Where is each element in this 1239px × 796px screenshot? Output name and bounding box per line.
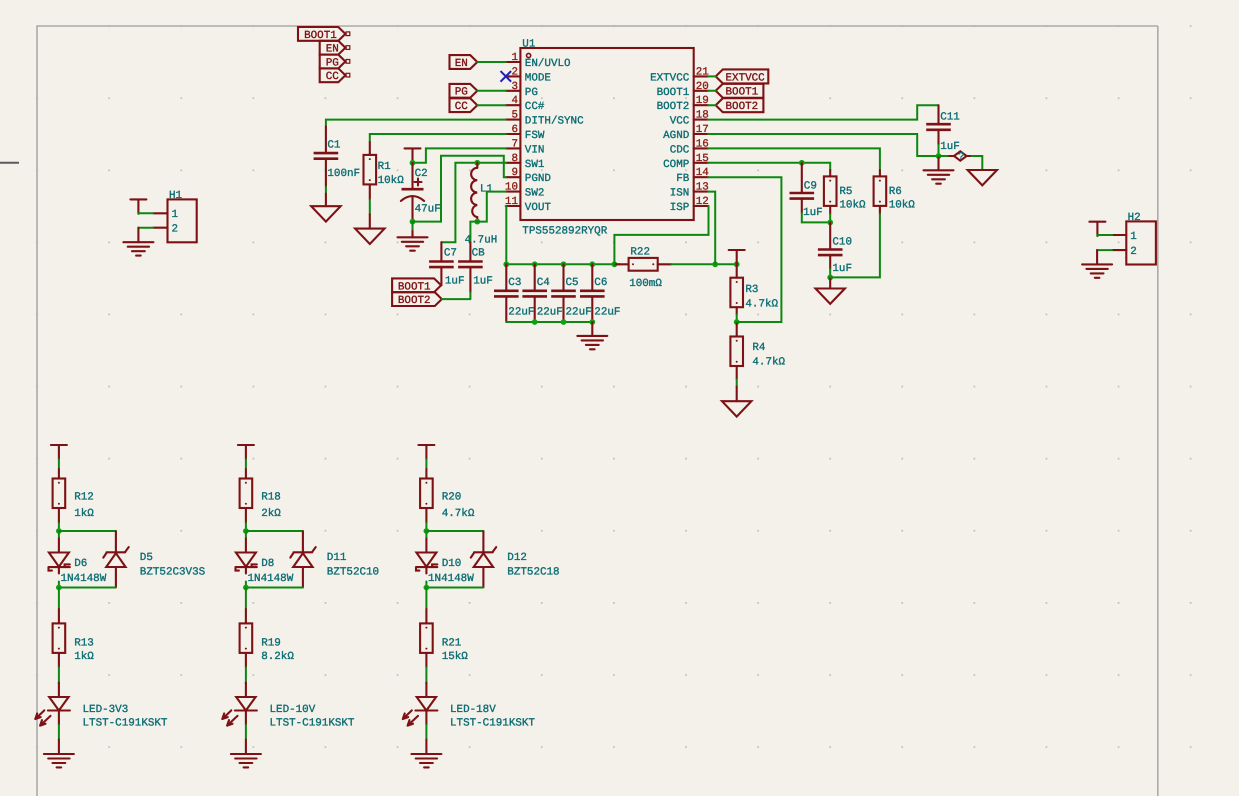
hierarchical label EXTVCC at pin 21	[716, 69, 769, 84]
svg-text:BOOT1: BOOT1	[726, 87, 759, 99]
wire L1 bottom to CB	[470, 222, 477, 243]
svg-text:CC#: CC#	[525, 101, 545, 113]
wire pin7 VIN to C2 node	[413, 148, 506, 162]
svg-text:FSW: FSW	[525, 130, 545, 142]
wire LED to ground	[245, 711, 247, 725]
svg-text:SW1: SW1	[525, 159, 545, 171]
svg-text:4.7kΩ: 4.7kΩ	[442, 508, 475, 520]
wire junction to ground	[937, 156, 939, 170]
wire C10 junction to ground	[829, 277, 831, 288]
svg-text:FB: FB	[676, 173, 690, 185]
wire CB to BOOT2	[442, 293, 471, 300]
net-tie NT1	[949, 151, 971, 163]
node rail at C5	[561, 261, 567, 267]
node ISN drop	[712, 261, 718, 267]
svg-text:CDC: CDC	[670, 144, 690, 156]
svg-text:15: 15	[696, 153, 709, 165]
svg-text:MODE: MODE	[525, 72, 551, 84]
wire pin17 AGND to junction	[708, 134, 938, 156]
svg-text:1uF: 1uF	[445, 276, 465, 288]
power bar above C2	[405, 148, 421, 162]
svg-text:6: 6	[511, 124, 518, 136]
svg-text:ISN: ISN	[670, 188, 690, 200]
svg-text:CB: CB	[472, 248, 486, 260]
svg-text:1N4148W: 1N4148W	[248, 573, 294, 585]
svg-text:2: 2	[1130, 246, 1137, 258]
svg-text:2: 2	[172, 224, 179, 236]
wire C11 bottom to junction	[938, 145, 940, 156]
wire L1 bottom to SW2 pin10	[477, 192, 506, 222]
wire pin5 DITH/SYNC to C1	[326, 120, 506, 127]
capacitor C5 22uF	[551, 264, 591, 322]
ground below R1	[355, 229, 384, 244]
svg-text:1kΩ: 1kΩ	[74, 508, 94, 520]
svg-text:R3: R3	[745, 284, 758, 296]
svg-text:R6: R6	[889, 186, 902, 198]
node gnd rail at C4	[532, 319, 538, 325]
hierarchical label BOOT1 (top left stack)	[298, 27, 350, 42]
node rail at C3	[503, 261, 509, 267]
power bar leg3	[418, 445, 434, 459]
resistor R18 2kOhm	[240, 479, 282, 524]
diode D8 1N4148W	[236, 539, 294, 585]
wire output rail	[506, 263, 620, 265]
svg-text:10: 10	[505, 182, 518, 194]
svg-text:DITH/SYNC: DITH/SYNC	[525, 116, 584, 128]
ground leg3	[411, 754, 441, 767]
U1 right pin names	[650, 72, 690, 214]
svg-text:SW2: SW2	[525, 188, 545, 200]
svg-text:C3: C3	[508, 277, 521, 289]
wire pin21 to EXTVCC	[708, 75, 716, 77]
svg-text:R1: R1	[378, 161, 392, 173]
svg-text:1: 1	[1130, 231, 1137, 243]
svg-text:8.2kΩ: 8.2kΩ	[261, 651, 294, 663]
svg-text:2kΩ: 2kΩ	[261, 508, 281, 520]
svg-text:1uF: 1uF	[473, 276, 493, 288]
svg-text:VIN: VIN	[525, 144, 545, 156]
capacitor C1 100nF	[314, 127, 360, 187]
wire pin12 ISP down and left to rail	[614, 206, 708, 264]
node leg1 lower junction	[56, 585, 62, 591]
wire pin16 CDC to R6	[708, 148, 880, 170]
svg-text:10kΩ: 10kΩ	[839, 200, 866, 212]
svg-text:R21: R21	[442, 638, 462, 650]
capacitor C4 22uF	[522, 264, 562, 322]
svg-text:R19: R19	[261, 638, 281, 650]
svg-text:22uF: 22uF	[594, 307, 620, 319]
svg-text:U1: U1	[522, 38, 536, 50]
diode D10 1N4148W	[416, 539, 474, 585]
svg-text:CC: CC	[326, 71, 340, 83]
resistor R19 8.2kOhm	[240, 623, 295, 667]
svg-text:4.7kΩ: 4.7kΩ	[752, 357, 785, 369]
svg-text:20: 20	[696, 81, 709, 93]
node COMP at C9	[799, 160, 805, 166]
wire LED to ground	[425, 711, 427, 725]
hierarchical label BOOT2 at pin 19	[716, 98, 764, 113]
power bar leg2	[238, 445, 254, 459]
svg-text:4.7kΩ: 4.7kΩ	[745, 298, 778, 310]
wire pin8 SW1 to L1 and C7	[441, 163, 505, 242]
power bar at H1 pin1	[130, 199, 146, 213]
zener diode D11 BZT52C10	[290, 531, 379, 587]
hierarchical label BOOT1 at pin 20	[716, 84, 764, 99]
ground below C1	[311, 206, 340, 221]
wire junction to D10	[425, 531, 427, 539]
LED LED-3V3 LTST-C191KSKT	[35, 683, 168, 730]
ground below C2	[398, 237, 428, 250]
svg-text:BZT52C10: BZT52C10	[327, 567, 379, 579]
U1 left pin names	[525, 58, 584, 214]
wire leg1 power to R12	[58, 459, 60, 469]
svg-text:10kΩ: 10kΩ	[889, 200, 916, 212]
ground below H2	[1082, 264, 1112, 277]
node gnd rail at C5	[561, 319, 567, 325]
capacitor C6 22uF	[580, 264, 620, 322]
U1 right pin stubs 21-12	[694, 76, 709, 206]
resistor R4 4.7kOhm	[730, 322, 785, 380]
node leg3 lower junction	[424, 585, 430, 591]
svg-text:PGND: PGND	[525, 173, 551, 185]
wire C6 node to ground	[591, 322, 593, 336]
svg-text:12: 12	[696, 196, 709, 208]
svg-text:H2: H2	[1128, 212, 1141, 224]
svg-text:1uF: 1uF	[940, 141, 960, 153]
svg-text:C4: C4	[537, 277, 550, 289]
svg-text:1N4148W: 1N4148W	[428, 573, 474, 585]
svg-text:COMP: COMP	[663, 159, 689, 171]
svg-text:BZT52C3V3S: BZT52C3V3S	[140, 567, 205, 579]
svg-text:7: 7	[511, 138, 518, 150]
wire leg3 power to R20	[425, 459, 427, 469]
wire R13 to LED	[58, 667, 60, 682]
wire net-tie to right ground	[971, 156, 982, 170]
svg-text:ISP: ISP	[670, 202, 690, 214]
svg-text:H1: H1	[169, 190, 183, 202]
wire junction to R19	[245, 588, 247, 610]
svg-text:D11: D11	[327, 552, 347, 564]
svg-text:1kΩ: 1kΩ	[74, 651, 94, 663]
wire junction to D8	[245, 531, 247, 539]
ground leg1	[44, 754, 74, 767]
svg-text:9: 9	[511, 167, 518, 179]
wire LED to ground	[58, 711, 60, 725]
svg-text:22uF: 22uF	[508, 307, 534, 319]
svg-text:100nF: 100nF	[327, 168, 360, 180]
svg-text:BOOT2: BOOT2	[398, 295, 431, 307]
svg-text:?: ?	[958, 152, 965, 164]
wire H2 pin1 to power	[1097, 235, 1112, 236]
resistor R1 10kOhm	[364, 142, 405, 200]
node leg2 upper junction	[243, 528, 249, 534]
wire CC to pin4	[477, 104, 506, 106]
wire pin11 VOUT down to output rail	[505, 206, 508, 264]
wire D10 to lower junction	[425, 582, 427, 588]
svg-text:PG: PG	[525, 87, 538, 99]
node C10 bottom junction	[827, 275, 833, 281]
svg-text:2: 2	[511, 66, 518, 78]
wire leg2 to zener D11	[246, 530, 303, 532]
svg-text:R5: R5	[839, 186, 852, 198]
svg-text:D6: D6	[74, 558, 87, 570]
svg-text:EN: EN	[455, 58, 468, 70]
wire pin15 COMP to C9/R5	[708, 163, 830, 170]
svg-text:C9: C9	[804, 180, 817, 192]
capacitor C2 47uF polarized	[401, 163, 441, 222]
wire C1 to ground	[325, 187, 327, 194]
resistor R20 4.7kOhm	[420, 479, 475, 524]
svg-text:47uF: 47uF	[415, 204, 441, 216]
wire R6 bottom to C10 junction	[830, 214, 880, 277]
svg-text:19: 19	[696, 95, 709, 107]
svg-text:R22: R22	[630, 247, 650, 259]
resistor R5 10kOhm	[824, 170, 866, 214]
wire D6 to lower junction	[58, 582, 60, 588]
capacitor C11 1uF	[926, 105, 960, 153]
svg-text:1uF: 1uF	[803, 207, 823, 219]
wire leg2 power to R18	[245, 459, 247, 469]
svg-text:VCC: VCC	[670, 116, 690, 128]
svg-text:C11: C11	[940, 112, 960, 124]
svg-text:17: 17	[696, 124, 709, 136]
no-connect X on pin 2 MODE	[501, 71, 512, 82]
svg-text:C6: C6	[594, 277, 607, 289]
svg-text:C5: C5	[566, 277, 579, 289]
wire R18 to junction	[245, 523, 247, 531]
wire C2 to ground	[412, 222, 414, 231]
svg-text:22uF: 22uF	[566, 307, 592, 319]
power bar at H2 pin1	[1089, 222, 1105, 236]
left edge tick mark	[0, 162, 19, 164]
svg-text:R4: R4	[752, 342, 765, 354]
diode D6 1N4148W	[49, 539, 107, 585]
connector H2	[1112, 212, 1156, 265]
hierarchical label EN at pin 1	[450, 55, 478, 70]
node leg3 upper junction	[424, 528, 430, 534]
resistor R3 4.7kOhm	[730, 264, 778, 314]
node R3 top	[734, 261, 740, 267]
svg-text:PG: PG	[455, 87, 468, 99]
svg-text:1: 1	[511, 52, 518, 64]
wire leg3 to zener D12	[426, 530, 483, 532]
svg-text:BZT52C18: BZT52C18	[507, 567, 559, 579]
inductor L1 4.7uH	[465, 163, 498, 247]
connector H1	[153, 190, 197, 242]
node C2 bottom junction	[410, 219, 416, 225]
svg-text:D10: D10	[442, 558, 462, 570]
wire R22 right to R3 top	[671, 263, 736, 265]
wire R4 bottom to ground	[736, 380, 738, 387]
svg-text:D8: D8	[261, 558, 274, 570]
wire junction to D6	[58, 531, 60, 539]
wire junction to net-tie	[939, 155, 955, 157]
wire pin18 VCC to C11	[708, 105, 938, 119]
ground below C6	[577, 336, 607, 349]
svg-text:BOOT1: BOOT1	[657, 87, 690, 99]
wire pin19 to BOOT2	[708, 104, 716, 106]
zener diode D5 BZT52C3V3S	[103, 531, 205, 587]
svg-text:13: 13	[696, 182, 709, 194]
capacitor C3 22uF	[494, 264, 534, 322]
wire pin9 PGND to C2 bottom	[413, 156, 506, 222]
resistor R13 1kOhm	[53, 623, 95, 667]
node rail at C4	[532, 261, 538, 267]
svg-text:4: 4	[511, 95, 518, 107]
hierarchical label CC at pin 4	[450, 98, 478, 113]
svg-text:C1: C1	[327, 140, 341, 152]
wire pin13 ISN down to rail	[708, 192, 715, 265]
wire R19 to LED	[245, 667, 247, 682]
zener diode D12 BZT52C18	[471, 531, 560, 587]
power bar leg1	[51, 445, 67, 459]
svg-text:D12: D12	[507, 552, 527, 564]
wire R3 bottom to junction	[736, 315, 738, 323]
node rail ISP drop	[612, 261, 618, 267]
svg-text:5: 5	[511, 110, 518, 122]
U1 left pin numbers	[505, 52, 519, 208]
capacitor C10 1uF	[818, 222, 852, 275]
svg-text:LED-18V: LED-18V	[450, 704, 496, 716]
wire pin20 to BOOT1	[708, 90, 716, 92]
wire leg1 to zener D5	[59, 530, 116, 532]
svg-text:R12: R12	[74, 491, 94, 503]
ground below C10	[816, 289, 845, 304]
svg-text:21: 21	[696, 66, 710, 78]
svg-text:EN/UVLO: EN/UVLO	[525, 58, 571, 70]
node leg2 lower junction	[243, 585, 249, 591]
svg-text:LTST-C191KSKT: LTST-C191KSKT	[270, 718, 355, 730]
node FB divider junction	[734, 319, 740, 325]
svg-text:R13: R13	[74, 638, 94, 650]
svg-text:CC: CC	[455, 101, 469, 113]
svg-text:1uF: 1uF	[832, 263, 852, 275]
ground below H1	[123, 242, 153, 255]
LED LED-10V LTST-C191KSKT	[222, 683, 355, 730]
capacitor CB 1uF	[458, 242, 493, 292]
node AGND/C11 junction	[936, 153, 942, 159]
svg-text:AGND: AGND	[663, 130, 689, 142]
wire C10 bottom to junction	[829, 269, 831, 277]
svg-text:10kΩ: 10kΩ	[378, 175, 405, 187]
wire R21 to LED	[425, 667, 427, 682]
resistor R22 100mOhm	[614, 247, 671, 291]
node rail at C6	[589, 261, 595, 267]
svg-text:LED-10V: LED-10V	[270, 704, 316, 716]
ground below C11	[924, 170, 954, 183]
capacitor C9 1uF	[790, 163, 823, 219]
ground right of net-tie	[968, 170, 997, 185]
node leg1 upper junction	[56, 528, 62, 534]
svg-text:14: 14	[696, 167, 709, 179]
hierarchical label BOOT2 at CB	[392, 292, 442, 307]
svg-text:C10: C10	[832, 237, 852, 249]
wire H1 pin2 to ground	[138, 227, 153, 229]
hierarchical label CC (top left stack)	[320, 68, 350, 83]
wire junction to R21	[425, 588, 427, 610]
svg-text:C2: C2	[415, 168, 428, 180]
svg-text:LED-3V3: LED-3V3	[83, 704, 129, 716]
svg-text:15kΩ: 15kΩ	[442, 651, 469, 663]
wire H1 pin1 to power	[138, 212, 153, 215]
svg-text:22uF: 22uF	[537, 307, 563, 319]
wire R1 to ground	[369, 200, 371, 215]
wire R5 bottom to junction	[829, 214, 831, 222]
svg-text:EXTVCC: EXTVCC	[726, 72, 766, 84]
wire R20 to junction	[425, 523, 427, 531]
svg-text:1N4148W: 1N4148W	[61, 573, 107, 585]
resistor R12 1kOhm	[53, 479, 95, 524]
svg-text:18: 18	[696, 110, 709, 122]
wire junction to R13	[58, 588, 60, 610]
svg-text:VOUT: VOUT	[525, 202, 552, 214]
svg-text:BOOT2: BOOT2	[657, 101, 690, 113]
svg-text:16: 16	[696, 138, 709, 150]
LED LED-18V LTST-C191KSKT	[403, 683, 536, 730]
wire H2 pin2 to ground	[1097, 249, 1112, 251]
wire ground rail under C3-C6	[506, 321, 592, 323]
svg-text:LTST-C191KSKT: LTST-C191KSKT	[83, 718, 168, 730]
wire pin6 FSW to R1	[370, 134, 506, 142]
hierarchical label EN (top left stack)	[320, 41, 350, 56]
svg-text:LTST-C191KSKT: LTST-C191KSKT	[450, 718, 535, 730]
ground leg2	[231, 754, 261, 767]
U1 right pin numbers	[696, 66, 710, 208]
svg-text:R18: R18	[261, 491, 281, 503]
ground below R4	[722, 401, 751, 416]
node L1 top junction	[474, 160, 480, 166]
svg-text:1: 1	[172, 209, 179, 221]
wire D12 to lower junction	[426, 587, 483, 589]
svg-text:D5: D5	[140, 552, 153, 564]
wire R12 to junction	[58, 523, 60, 531]
svg-text:8: 8	[511, 153, 518, 165]
wire D8 to lower junction	[245, 582, 247, 588]
svg-text:C7: C7	[444, 248, 457, 260]
hierarchical label BOOT1 at C7	[392, 278, 441, 293]
wire D5 to lower junction	[59, 587, 116, 589]
wire pin14 FB to divider junction	[708, 177, 781, 322]
op-amp U1 body TPS552892RYQR	[520, 38, 693, 237]
wire C9 bottom to R5 bottom	[802, 213, 830, 222]
node L1 bottom junction	[474, 219, 480, 225]
resistor R21 15kOhm	[420, 623, 468, 667]
svg-text:100mΩ: 100mΩ	[629, 278, 662, 290]
resistor R6 10kOhm	[874, 170, 916, 214]
hierarchical label PG (top left stack)	[320, 55, 350, 70]
svg-text:3: 3	[511, 81, 518, 93]
U1 left pin stubs 1-11	[506, 62, 521, 206]
wire PG to pin3	[477, 90, 506, 92]
svg-text:TPS552892RYQR: TPS552892RYQR	[522, 226, 607, 238]
wire D11 to lower junction	[246, 587, 303, 589]
svg-text:EXTVCC: EXTVCC	[650, 72, 690, 84]
node C2 top junction	[410, 160, 416, 166]
wire EN to pin1	[477, 61, 506, 63]
node R5/C9/C10 junction	[827, 220, 833, 226]
hierarchical label PG at pin 3	[450, 84, 478, 99]
capacitor C7 1uF	[429, 242, 464, 287]
svg-text:BOOT2: BOOT2	[726, 101, 759, 113]
node gnd rail at C6	[589, 319, 595, 325]
power bar above R3	[729, 250, 745, 264]
svg-text:R20: R20	[442, 491, 462, 503]
